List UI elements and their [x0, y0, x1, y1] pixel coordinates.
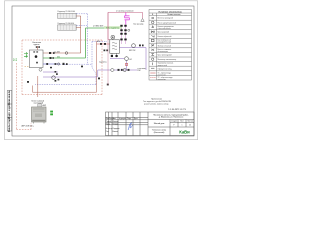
sheet edge	[5, 1, 198, 140]
side stamp (left margin cells)	[7, 91, 12, 132]
svg-text:Листов: Листов	[187, 121, 193, 123]
pump N5	[132, 44, 136, 48]
svg-text:Инв.№ подл.: Инв.№ подл.	[8, 117, 11, 133]
company logo	[179, 129, 190, 134]
boundary dashed (boiler room)	[16, 40, 102, 130]
svg-text:отопления: отопления	[158, 74, 166, 76]
svg-text:Петров: Петров	[113, 123, 119, 125]
svg-text:Ø25: Ø25	[54, 52, 57, 54]
legend line samples	[150, 73, 155, 78]
pump N3	[52, 76, 56, 80]
legend rows text	[158, 17, 177, 81]
right section	[148, 119, 194, 121]
svg-text:(Котельной): (Котельной)	[154, 131, 165, 134]
svg-text:Ø25: Ø25	[57, 51, 60, 53]
valves on lower purple	[118, 69, 120, 71]
drain valve mark	[107, 84, 109, 86]
building outline brown	[33, 41, 97, 92]
svg-text:жидкостный: жидкостный	[158, 64, 168, 67]
svg-text:Жилой дом: Жилой дом	[154, 122, 165, 125]
svg-text:КаВи: КаВи	[179, 129, 190, 134]
svg-text:группа: группа	[34, 44, 41, 46]
small junction box	[38, 104, 42, 107]
filter on lower purple	[110, 68, 114, 72]
svg-text:канализацию: канализацию	[158, 51, 169, 53]
svg-text:Ø20: Ø20	[97, 41, 100, 43]
svg-text:Козлов: Козлов	[113, 131, 119, 133]
svg-text:Стадия: Стадия	[171, 121, 177, 123]
wall gas boiler	[32, 107, 47, 124]
svg-text:Обращенная общ.: Обращенная общ.	[158, 68, 173, 70]
heater bottom connections	[112, 53, 117, 57]
svg-text:Дата: Дата	[134, 118, 138, 120]
radiator R2	[58, 25, 77, 30]
svg-text:Манометр показывающ.: Манометр показывающ.	[158, 59, 177, 61]
legend symbols	[151, 17, 154, 68]
valves on drain line	[55, 80, 57, 82]
green indicators	[50, 111, 53, 113]
pump P1	[35, 55, 38, 58]
drawing frame	[12, 6, 194, 136]
title block	[106, 112, 195, 136]
valve on T1 line	[49, 52, 51, 54]
svg-text:Условные обозначения: Условные обозначения	[158, 10, 182, 13]
side stamp rotated text	[8, 90, 11, 132]
legend table	[149, 10, 192, 81]
left grid horizontals	[106, 116, 149, 118]
svg-text:от системы отопления: от системы отопления	[116, 10, 134, 12]
GVS out purple top	[119, 48, 146, 71]
svg-text:Лист: Лист	[180, 121, 184, 123]
valve on green line	[50, 57, 52, 59]
title block small texts	[106, 117, 138, 133]
svg-text:Подп.: Подп.	[127, 118, 132, 120]
lower purple run	[98, 59, 138, 70]
svg-text:расчет реком. замены обор.: расчет реком. замены обор.	[144, 103, 169, 105]
cold water to heater red	[97, 43, 110, 45]
svg-text:Насос циркуляционный: Насос циркуляционный	[158, 21, 177, 24]
svg-text:Пров.: Пров.	[106, 123, 111, 125]
svg-text:д. Мамоново, ул. Рублевская: д. Мамоново, ул. Рублевская	[159, 117, 183, 119]
pump N2	[125, 57, 129, 61]
svg-text:Взам.инв.№: Взам.инв.№	[8, 90, 11, 105]
heat exchanger coil magenta	[125, 12, 130, 24]
check valve marks	[139, 45, 141, 47]
svg-text:1: 1	[182, 124, 183, 126]
radiator R1	[58, 13, 77, 18]
pump group box	[29, 50, 43, 68]
svg-text:Кран шаровый: Кран шаровый	[158, 30, 170, 33]
riser pair with valves	[122, 24, 126, 44]
boiler feed pipe brown	[37, 76, 39, 97]
svg-text:Фильтр сетчатый: Фильтр сетчатый	[158, 44, 171, 47]
signature scribble	[128, 123, 133, 130]
small mark in box	[36, 62, 38, 64]
svg-text:от ХВС Ø25: от ХВС Ø25	[93, 26, 103, 28]
pump N4	[111, 35, 115, 39]
pipe GVS green	[43, 28, 122, 58]
list cells	[171, 121, 193, 127]
svg-text:подпитка: подпитка	[99, 62, 107, 64]
svg-text:№докум.: №докум.	[119, 117, 126, 120]
pump group inlet valves	[36, 46, 38, 48]
svg-text:Радиатор 22-500-800: Радиатор 22-500-800	[58, 23, 75, 25]
svg-text:25: 25	[189, 124, 191, 126]
svg-text:Кран трехходовой: Кран трехходовой	[158, 54, 172, 57]
pipe B1 blue	[43, 63, 60, 65]
svg-text:отопления: отопления	[158, 79, 166, 81]
red drain component	[126, 63, 128, 65]
indirect water heater	[110, 40, 120, 54]
address cell text	[153, 113, 189, 118]
purple lines below pump group	[43, 72, 97, 77]
scheme name	[152, 130, 167, 135]
svg-text:Ø32 ГВС: Ø32 ГВС	[129, 50, 136, 52]
svg-text:Бак расшир.: Бак расшир.	[134, 24, 145, 26]
valves on risers	[120, 25, 122, 27]
GVS arrows left of box	[24, 52, 28, 57]
svg-text:АВР 220В 50Гц: АВР 220В 50Гц	[22, 124, 34, 127]
HVS highlighted text	[104, 26, 122, 29]
svg-text:сбросной клапан: сбросной клапан	[158, 27, 171, 30]
valves below pump group	[50, 67, 52, 69]
svg-text:Вентиль проходной: Вентиль проходной	[158, 17, 173, 20]
corner components lower left of purple	[98, 78, 100, 80]
pipe T1 horizontal to pump group	[43, 52, 81, 54]
valves on control line	[63, 63, 65, 65]
expansion vessel circle	[39, 68, 42, 71]
valve on blue line	[46, 63, 48, 65]
svg-text:Наименование: Наименование	[167, 14, 180, 16]
svg-text:Подп. и дата: Подп. и дата	[8, 103, 11, 119]
annex text block	[143, 98, 172, 105]
left grid verticals	[108, 112, 110, 136]
svg-text:Н2: Н2	[130, 59, 132, 61]
control line dashed (radiators)	[35, 14, 107, 85]
pipe T1 radiators riser	[76, 16, 80, 53]
svg-text:Г-1.30.2/ПГ-01 ТХ: Г-1.30.2/ПГ-01 ТХ	[168, 109, 186, 111]
pipe system heating magenta	[108, 12, 143, 39]
svg-text:Клапан обратный: Клапан обратный	[158, 35, 172, 38]
svg-text:расширительный: расширительный	[158, 41, 172, 44]
svg-text:Утв.: Утв.	[106, 131, 110, 133]
air vent triangle	[141, 19, 144, 22]
svg-text:Радиатор 22-500-1000: Радиатор 22-500-1000	[58, 11, 76, 13]
